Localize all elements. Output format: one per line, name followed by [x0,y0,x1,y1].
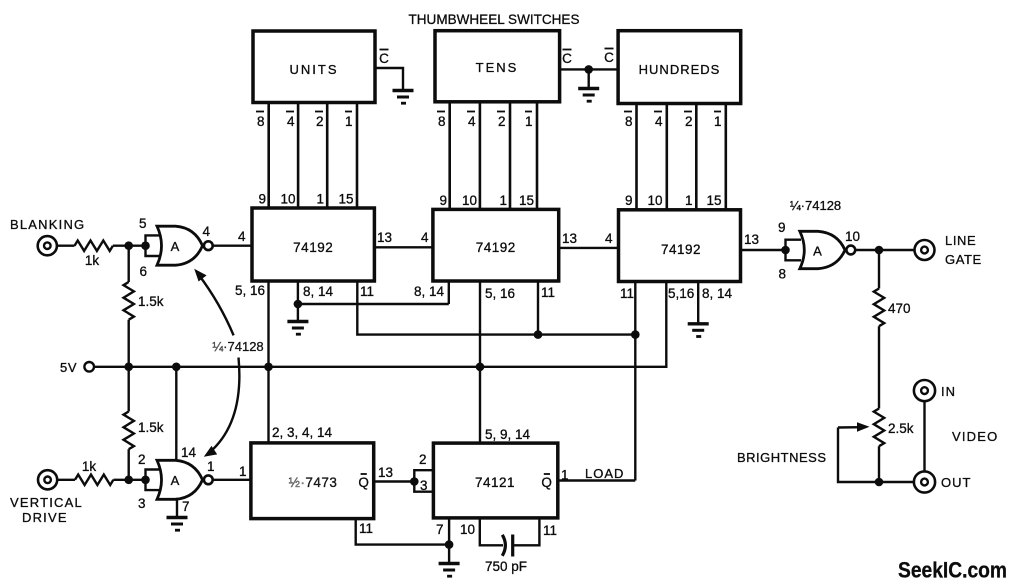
switch TENS [435,31,560,102]
svg-text:4: 4 [605,231,613,246]
terminal BLANKING input [10,217,85,255]
node pot/out junction [875,478,884,487]
svg-text:1: 1 [316,192,324,207]
resistor R2 1.5k (upper) [123,282,163,320]
svg-text:74192: 74192 [661,242,701,257]
wire 5V bus down to lower R5 [127,367,129,412]
svg-text:13: 13 [378,465,393,480]
svg-text:Q: Q [541,475,552,490]
svg-text:2.5k: 2.5k [888,421,914,436]
wire R2 to 5V bus [127,320,129,367]
svg-text:1: 1 [345,114,353,129]
svg-text:11: 11 [543,523,557,538]
counter U2 74192 tens [433,209,559,281]
svg-text:13: 13 [744,232,759,247]
arrow to gate G2 [204,358,240,457]
svg-text:2, 3, 4, 14: 2, 3, 4, 14 [272,425,333,440]
wire U3 pin11 riser to load line [620,282,635,481]
nor-gate G2 1/4-74128 (vertical) [138,452,215,511]
svg-text:4: 4 [421,230,429,245]
wire U1 pin13 to U2 pin4 [374,230,433,247]
node U3 pin11/load bus [631,330,640,339]
svg-text:BLANKING: BLANKING [10,217,85,232]
svg-text:2: 2 [498,114,506,129]
svg-text:1: 1 [561,468,569,483]
wire line-gate node down to R3 [878,250,880,289]
wire U2 pins 5,16 riser to 5V and 74121 [480,282,515,443]
svg-text:UNITS: UNITS [290,62,339,77]
svg-text:TENS: TENS [476,60,519,75]
svg-text:GATE: GATE [945,252,982,267]
svg-text:5, 16: 5, 16 [485,286,515,301]
wire U2 pin11 riser [538,281,555,335]
node G3 input junction [781,246,790,255]
svg-text:5V: 5V [60,360,77,375]
svg-text:11: 11 [359,521,373,536]
svg-text:HUNDREDS: HUNDREDS [639,62,721,77]
svg-text:470: 470 [888,301,911,316]
pin labels 9 10 1 15 (U1 inputs) [258,192,353,207]
node 5V/G2 pin14 [172,363,181,372]
switch UNITS [253,31,375,103]
terminal LINE GATE output [915,233,982,267]
node pin7/pin11 junction [445,540,454,549]
resistor R3 470 [874,289,911,327]
svg-text:2: 2 [138,452,146,467]
wire 7473 pin13 to 74121 input [374,465,415,482]
wire pot bottom to OUT [878,446,880,482]
terminal VIDEO OUT [914,471,972,492]
ground GND1 (units common) [393,91,414,104]
wire G2 output to 7473 pin1 [213,464,251,480]
ground GND4 (U1 8,14) [287,304,308,334]
svg-text:74192: 74192 [293,240,333,255]
counter U1 74192 units [252,208,374,281]
svg-text:8, 14: 8, 14 [414,284,445,299]
svg-text:8: 8 [257,114,265,129]
svg-text:9: 9 [625,193,633,208]
switch HUNDREDS [618,31,741,104]
svg-text:10: 10 [280,192,295,207]
node 5V/U1 5,16 riser [264,363,273,372]
svg-text:1: 1 [685,193,693,208]
node vert/1.5k junction [124,476,133,485]
node 470 branch [875,246,884,255]
ground GND5 (U3 8,14) [688,324,709,337]
svg-text:1k: 1k [82,459,97,474]
node common-C junction [584,65,593,74]
svg-text:LINE: LINE [945,233,976,248]
pin labels 8 4 2 1 (units, complemented) [256,112,353,130]
wire U3 pin13 to gate G3 input [741,232,786,250]
wire 74121 pins 2,3 input bracket [414,452,433,493]
svg-text:2: 2 [685,114,693,129]
svg-text:1.5k: 1.5k [138,294,164,309]
wire U1 pins 8,14 to ground and U2 [298,281,449,304]
capacitor C1 750pF [485,535,527,575]
svg-text:VERTICAL: VERTICAL [10,495,83,510]
svg-text:8, 14: 8, 14 [303,284,334,299]
svg-text:C: C [604,50,614,65]
wire R1 to gate G1 input [113,244,146,246]
svg-text:1: 1 [714,114,722,129]
svg-text:5,16: 5,16 [668,286,694,301]
svg-text:4: 4 [287,114,295,129]
svg-text:A: A [171,239,180,254]
svg-text:11: 11 [541,285,555,300]
one-shot U5 74121 [433,443,557,518]
wire TENS common C to HUNDREDS common C [560,49,619,70]
wire G1 output to U1 pin4 [213,229,252,246]
terminal 5V supply [60,360,94,375]
ground GND6 (74121 pin7) [439,545,460,577]
svg-text:10: 10 [647,193,662,208]
node U2 pin11/load bus [534,330,543,339]
pin labels 9 10 1 15 (U3 inputs) [625,193,722,208]
svg-text:¼·74128: ¼·74128 [790,198,841,213]
pin labels 9 10 1 15 (U2 inputs) [439,193,534,208]
wiper arrow of pot [838,422,870,431]
svg-text:VIDEO: VIDEO [952,429,998,444]
resistor R5 1.5k (lower) [123,412,163,450]
svg-text:9: 9 [439,193,447,208]
wire blanking junction down to upper R2 [127,246,129,282]
wire 7473 pin11 to 74121 pin7 [356,519,449,545]
wire U3 pins 8,14 to ground [698,282,732,323]
svg-text:1.5k: 1.5k [138,420,164,435]
svg-text:8: 8 [779,267,787,282]
pin labels 8 4 2 1 (tens, complemented) [437,112,533,130]
svg-text:6: 6 [140,264,148,279]
svg-text:LOAD: LOAD [585,466,624,481]
node blanking/1.5k junction [124,241,133,250]
ground GND3 (G2 pin7) [167,518,188,531]
svg-text:A: A [171,473,180,488]
counter U3 74192 hundreds [619,210,741,282]
wire U1 pins 5,16 riser to 5V and 7473 [235,281,269,443]
svg-text:Q: Q [358,475,369,490]
svg-text:DRIVE: DRIVE [22,510,68,525]
svg-text:SeekIC.com: SeekIC.com [898,558,1007,583]
terminal VIDEO IN [914,380,956,401]
svg-text:3: 3 [138,496,146,511]
potentiometer R4 2.5k [874,409,914,447]
pin labels 8 4 2 1 (hundreds, complemented) [624,112,722,130]
svg-text:15: 15 [519,193,534,208]
svg-text:½·7473: ½·7473 [289,475,338,490]
arrow to gate G1 [194,269,233,336]
wire blanking to R1 [57,244,75,246]
svg-text:8: 8 [438,114,446,129]
svg-text:C: C [562,51,572,66]
ground GND2 (tens/hundreds common) [578,69,599,101]
wire G2 pin7 to ground [177,498,190,516]
svg-text:OUT: OUT [941,475,971,490]
svg-text:¼·74128: ¼·74128 [212,339,263,354]
wire R5 to vertical-drive junction [127,449,129,480]
svg-text:8, 14: 8, 14 [702,286,733,301]
wire wiper return to pot bottom [838,428,879,483]
node 5V/1.5k [124,363,133,372]
wire 5V bus [94,282,666,367]
svg-text:4: 4 [655,114,663,129]
wire UNITS common C to ground [375,50,403,90]
svg-text:8: 8 [625,114,633,129]
svg-text:750 pF: 750 pF [485,559,527,574]
svg-text:11: 11 [360,284,374,299]
svg-text:13: 13 [377,230,392,245]
wire 74121 pin1 LOAD [558,466,636,483]
svg-text:5: 5 [139,216,147,231]
svg-text:2: 2 [419,452,427,467]
wires UNITS to U1 (bcd lines) [269,103,357,209]
wire vert drive to R6 [57,479,75,481]
svg-text:1: 1 [525,114,533,129]
svg-text:11: 11 [620,286,634,301]
wire 74121 pin11 to capacitor [513,518,557,545]
wires HUNDREDS to U3 (bcd lines) [637,104,726,210]
svg-text:C: C [379,51,389,66]
wire U1 pin11 riser and load bus [357,281,635,335]
wire video in to out [923,402,925,472]
svg-text:74192: 74192 [476,240,516,255]
svg-text:1: 1 [499,193,507,208]
wires TENS to U2 (bcd lines) [450,102,537,210]
svg-text:13: 13 [562,231,577,246]
node 74121 input junction [410,477,419,486]
svg-text:10: 10 [460,522,475,537]
svg-text:1: 1 [207,459,215,474]
wire 74121 pin7 [436,518,449,545]
svg-text:74121: 74121 [475,475,515,490]
wire 74121 pin10 to capacitor [460,518,503,545]
wire R3 to R4 pot [878,326,880,408]
svg-text:9: 9 [778,220,786,235]
resistor R6 1k [75,459,113,485]
wire R6 to gate G2 input [113,479,145,481]
node G1 input junction [141,241,150,250]
svg-text:2: 2 [316,114,324,129]
svg-text:THUMBWHEEL SWITCHES: THUMBWHEEL SWITCHES [409,11,580,27]
svg-text:5, 16: 5, 16 [235,283,265,298]
svg-text:15: 15 [706,193,721,208]
svg-text:4: 4 [238,229,246,244]
svg-text:10: 10 [845,229,860,244]
svg-text:BRIGHTNESS: BRIGHTNESS [737,450,827,465]
svg-text:10: 10 [462,193,477,208]
resistor R1 1k [75,241,113,269]
wire U2 pin13 to U3 pin4 [559,231,619,248]
wire G3 output to LINE GATE [856,249,914,251]
node G2 input junction [141,476,150,485]
node 5V/U2 5,16 riser [476,363,485,372]
nor-gate G1 1/4-74128 (blanking) [139,216,213,279]
svg-text:5, 9, 14: 5, 9, 14 [485,427,531,442]
wire 5V to G2 pin 14 [176,367,196,462]
svg-text:4: 4 [203,224,211,239]
terminal VERTICAL DRIVE input [10,470,83,525]
node U1 8,14 ground junction [294,300,303,309]
svg-text:1k: 1k [85,253,100,268]
svg-text:3: 3 [420,478,428,493]
svg-text:IN: IN [941,384,956,399]
svg-text:7: 7 [436,522,444,537]
svg-text:14: 14 [181,445,197,460]
flip-flop U4 1/2-7473 [251,443,374,519]
label 1/4-74128 with arrows [212,339,263,354]
svg-text:4: 4 [468,114,476,129]
svg-text:1: 1 [239,464,247,479]
nor-gate G3 1/4-74128 (line gate) [778,198,860,282]
svg-text:15: 15 [338,192,353,207]
svg-text:A: A [813,244,822,259]
svg-text:7: 7 [182,499,190,514]
svg-text:9: 9 [258,192,266,207]
